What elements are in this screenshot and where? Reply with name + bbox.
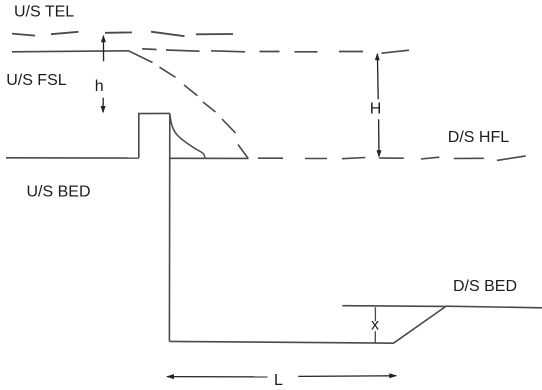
U/S TEL dashed energy line <box>12 32 233 37</box>
label U/S TEL <box>14 3 74 20</box>
svg-text:H: H <box>370 101 382 118</box>
U/S FSL solid water surface line <box>12 51 153 63</box>
svg-text:h: h <box>95 78 104 95</box>
crest block left edge and top <box>139 113 170 157</box>
label D/S HFL <box>448 129 509 146</box>
nappe curve over crest <box>170 114 205 158</box>
drawdown sloping dashed water surface <box>160 67 249 158</box>
dimension x tick upper <box>374 307 376 321</box>
D/S HFL dashed line <box>258 156 526 161</box>
label h <box>95 78 104 95</box>
D/S FSL horizontal dashed extension <box>142 49 409 53</box>
D/S HFL solid stub at crest <box>170 157 249 159</box>
dimension x tick lower <box>374 331 376 343</box>
svg-text:U/S FSL: U/S FSL <box>6 72 67 89</box>
dimension H arrow upper <box>375 53 380 100</box>
label D/S BED <box>453 278 517 295</box>
svg-text:U/S TEL: U/S TEL <box>14 3 74 20</box>
U/S bed line <box>6 157 139 159</box>
svg-text:U/S BED: U/S BED <box>27 184 91 201</box>
dimension h arrow upper <box>101 35 106 61</box>
label H <box>370 101 382 118</box>
D/S floor line <box>169 341 393 343</box>
D/S bed reference line left part <box>342 305 446 308</box>
svg-text:D/S BED: D/S BED <box>453 278 517 295</box>
dimension L arrow left <box>166 374 268 379</box>
label U/S BED <box>27 184 91 201</box>
label x <box>371 316 379 333</box>
label L <box>274 372 283 389</box>
dimension L arrow right <box>298 373 397 378</box>
drop wall vertical line <box>168 113 170 341</box>
svg-text:L: L <box>274 372 283 389</box>
dimension h arrow lower <box>101 98 106 114</box>
D/S bed line right part <box>446 306 542 308</box>
ramp from floor to D/S bed <box>394 306 446 343</box>
label U/S FSL <box>6 72 67 89</box>
svg-text:D/S HFL: D/S HFL <box>448 129 509 146</box>
dimension H arrow lower <box>377 119 382 157</box>
svg-text:x: x <box>371 316 379 333</box>
